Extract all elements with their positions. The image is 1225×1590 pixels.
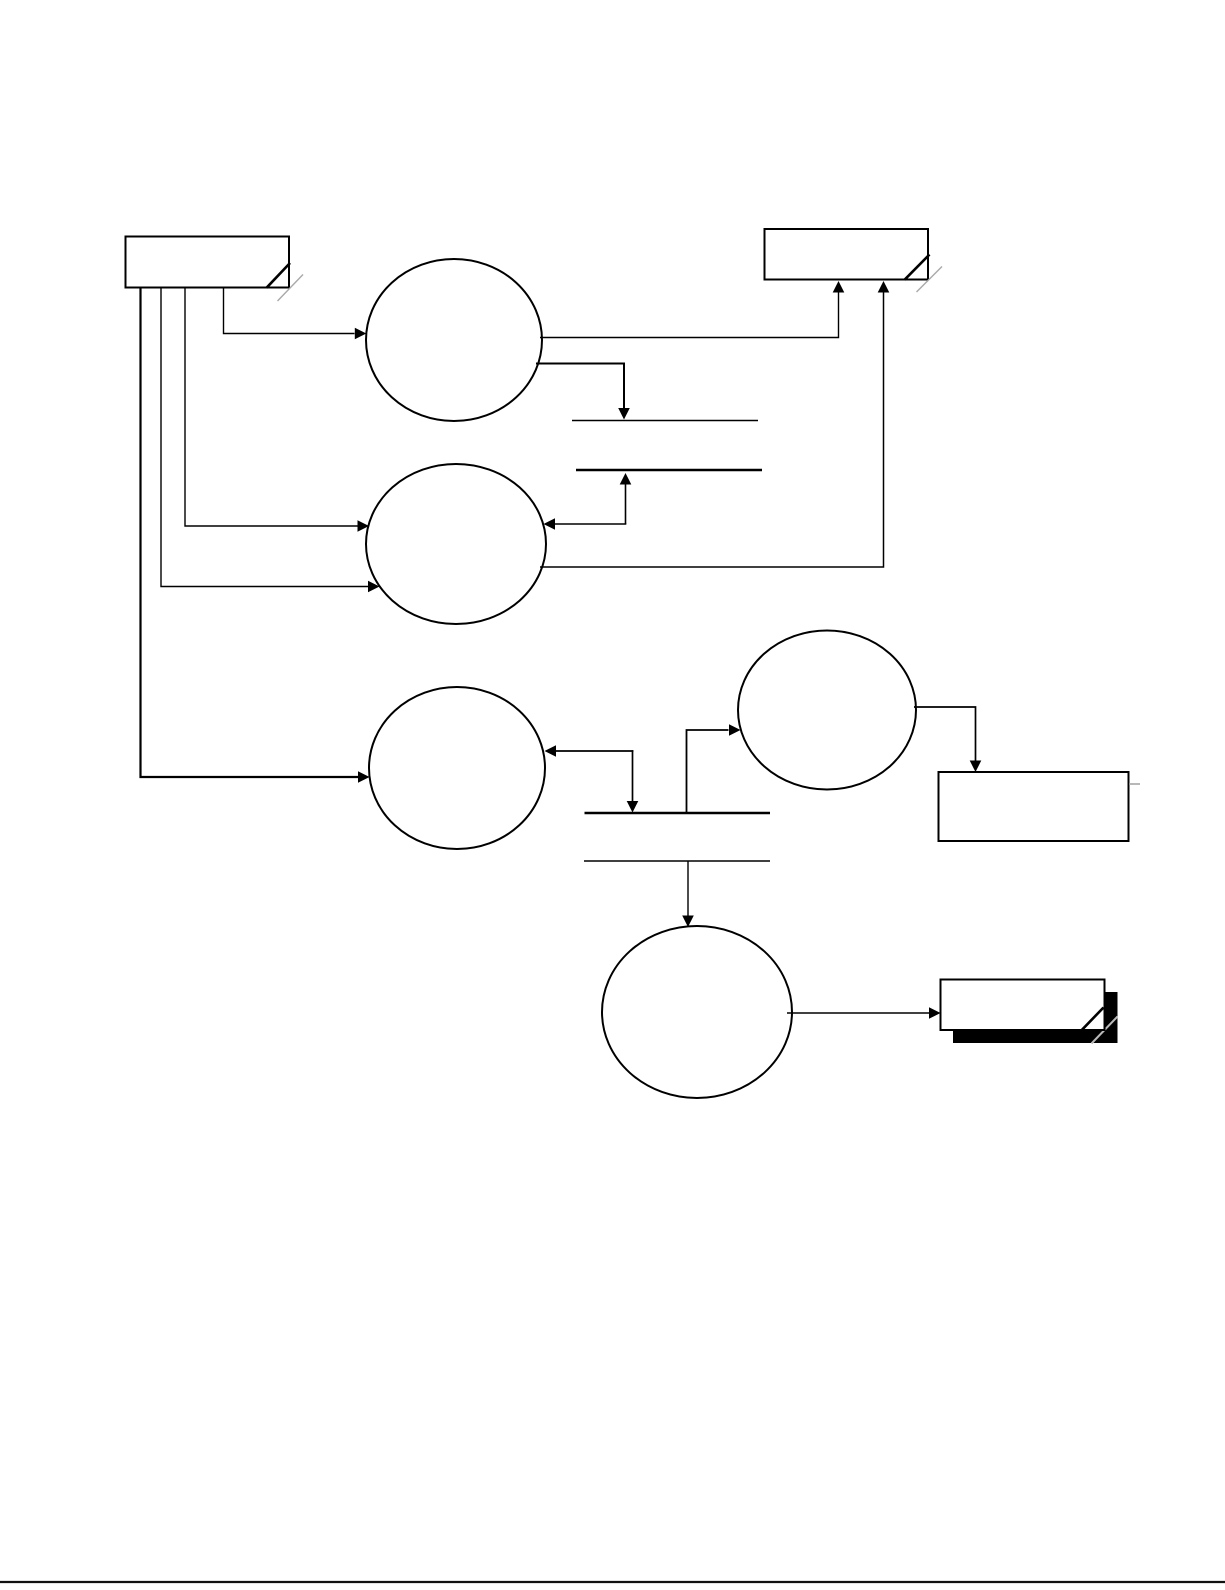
process P4 (fourth circle) — [738, 631, 916, 790]
wire: P1 lower-right then down into data store DS1 top line — [536, 364, 624, 409]
wire: P2 right then up into top-right entity — [540, 293, 884, 568]
gray shadow of corner mark (top-left entity) — [278, 275, 304, 302]
gray tick at right edge of rectangle — [1129, 783, 1140, 785]
process P1 (top circle) — [366, 259, 542, 421]
wire: up from corner into DS1 bottom line — [625, 485, 627, 525]
data store: right rectangle — [939, 772, 1129, 841]
data store DS1 bottom line — [576, 469, 762, 471]
wire: left from corner into process P3 — [556, 750, 633, 752]
data store DS1 top line — [572, 420, 758, 422]
wire: P5 right into shadowed output entity — [787, 1012, 929, 1014]
wire: entity line 3 down then right into process P2 (upper) — [185, 288, 358, 526]
gray shadow of corner mark (top-right entity) — [917, 267, 943, 293]
wire: entity line 4 down then right into process P1 — [224, 288, 355, 334]
gray shadow of corner mark over black shadow — [1092, 1017, 1118, 1044]
data store DS2 top line — [585, 812, 771, 814]
wire: DS2 bottom line down into process P5 — [687, 861, 689, 916]
wire: left from corner into process P2 — [555, 523, 626, 525]
wire: P4 right then down into right rectangle — [914, 707, 976, 761]
wire: P1 right then up into top-right entity — [540, 293, 839, 338]
external entity: shadowed output rectangle — [941, 980, 1105, 1031]
bottom page rule — [0, 1581, 1225, 1583]
external entity: top-left source (duplicated) — [126, 237, 290, 288]
duplicate corner mark on top-right entity — [905, 255, 930, 280]
duplicate corner mark on top-left entity — [267, 263, 291, 288]
process P2 (second circle) — [366, 464, 546, 624]
process P3 (third circle) — [369, 687, 545, 849]
external entity: top-right sink (duplicated) — [765, 229, 929, 280]
wire: down from corner into data store DS2 top line — [632, 750, 634, 801]
duplicate corner mark on output entity — [1082, 1008, 1104, 1031]
wire: DS2 top line up then right into process P4 — [687, 730, 729, 812]
data store DS2 bottom line — [584, 860, 770, 862]
wire: entity line 2 down then right into process P2 (lower) — [161, 288, 368, 587]
wire: entity line 1 down then right into process P3 — [141, 288, 359, 777]
black drop shadow of output entity — [953, 992, 1118, 1043]
process P5 (bottom circle) — [602, 926, 792, 1098]
